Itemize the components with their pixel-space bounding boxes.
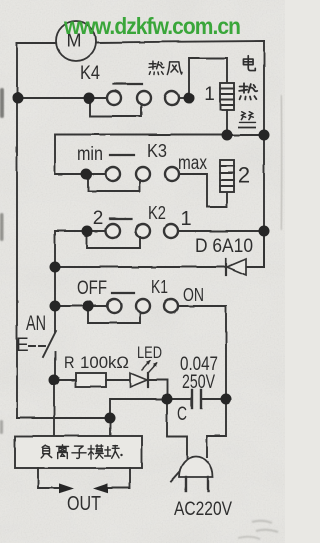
wire: diode cathode to branch node bbox=[55, 266, 226, 268]
paper edge artifacts bbox=[0, 88, 4, 434]
switch K1 bridge bar bbox=[112, 292, 134, 294]
LED arrows bbox=[142, 361, 157, 372]
svg-text:min: min bbox=[77, 144, 103, 165]
switch K3 linking bracket bbox=[88, 177, 140, 191]
svg-text:OFF: OFF bbox=[77, 278, 107, 299]
svg-text:AN: AN bbox=[26, 312, 46, 335]
node: heater mid / right rail bbox=[259, 130, 270, 141]
svg-text:max: max bbox=[178, 153, 207, 174]
wire: capacitor to cap-right node bbox=[202, 398, 226, 400]
node: K2 / right rail bbox=[259, 226, 270, 237]
switch K3 contact circle 1 bbox=[106, 167, 120, 181]
wire: heater 1 to node bbox=[226, 110, 228, 135]
wire: cap node to ion feed node bbox=[110, 399, 167, 418]
wire: K1 row to first contact bbox=[88, 305, 108, 307]
switch K2 contact circle 3 bbox=[164, 224, 178, 238]
switch AN lower lead bbox=[54, 352, 56, 380]
node: heater mid bbox=[222, 130, 233, 141]
node: diode / branch bbox=[50, 262, 61, 273]
svg-text:LED: LED bbox=[137, 343, 162, 362]
switch K4 linking bracket bbox=[90, 101, 141, 116]
switch K4 bridge bar bbox=[114, 83, 142, 85]
wire: heater node to right rail bbox=[227, 134, 264, 136]
wire: LED to cap-left node bbox=[148, 380, 167, 399]
svg-text:OUT: OUT bbox=[67, 493, 101, 515]
node: cap left bbox=[162, 394, 173, 405]
svg-text:1: 1 bbox=[180, 208, 191, 230]
LED bbox=[130, 373, 148, 387]
wire: K1 ON contact down to cap node bbox=[178, 306, 226, 399]
switch K1 contact circle 3 bbox=[164, 299, 178, 313]
switch K2 contact circle 2 bbox=[136, 224, 150, 238]
wire: K4 contact 3 to heater branch bbox=[179, 97, 189, 99]
wire: ion module right feed bbox=[109, 418, 111, 436]
wire: left rail bbox=[16, 43, 18, 418]
wire: ion output left bbox=[38, 468, 62, 488]
svg-text:C: C bbox=[177, 404, 187, 425]
svg-text:www.dzkfw.com.cn: www.dzkfw.com.cn bbox=[63, 13, 241, 39]
wire: diode node down to K1 row bbox=[55, 267, 88, 306]
svg-text:K1: K1 bbox=[151, 277, 168, 297]
svg-text:2: 2 bbox=[238, 163, 250, 188]
switch K1 contact circle 2 bbox=[136, 299, 150, 313]
wire: plug right lead bbox=[207, 399, 226, 457]
switch K1 linking bracket bbox=[88, 309, 140, 323]
wire: K4 row from rail to first contact bbox=[17, 97, 107, 99]
wire: ion output right bbox=[106, 468, 130, 488]
scan streak right edge bbox=[281, 95, 282, 230]
diode D 6A10 bbox=[226, 259, 246, 275]
switch AN label dashes bbox=[29, 345, 48, 347]
heater element 1 bbox=[220, 83, 234, 110]
capacitor C plates bbox=[192, 390, 201, 408]
heater element 2 bbox=[220, 160, 234, 192]
svg-text:ON: ON bbox=[183, 285, 204, 305]
switch K4 contact circle 1 bbox=[107, 91, 121, 105]
svg-text:E: E bbox=[16, 335, 29, 356]
wire: right rail bbox=[263, 41, 265, 267]
motor M bbox=[56, 21, 96, 61]
ion output arrowheads bbox=[59, 483, 108, 493]
svg-text:K2: K2 bbox=[148, 203, 166, 223]
node: K1 common bbox=[83, 301, 94, 312]
wire: resistor to LED bbox=[106, 379, 130, 381]
svg-text:AC220V: AC220V bbox=[174, 499, 232, 520]
switch K3 contact circle 2 bbox=[136, 167, 150, 181]
label 热风 bbox=[149, 61, 182, 74]
wire: top rail from left corner to motor bbox=[17, 42, 56, 44]
switch K3 bridge bar bbox=[110, 154, 134, 156]
switch K2 linking bracket bbox=[87, 234, 140, 248]
switch K2 contact circle 1 bbox=[106, 224, 120, 238]
switch K4 contact circle 2 bbox=[137, 91, 151, 105]
svg-text:100kΩ: 100kΩ bbox=[80, 353, 129, 372]
switch K2 bridge bar bbox=[110, 218, 132, 220]
node: cap right bbox=[221, 394, 232, 405]
node: K3 common bbox=[81, 169, 92, 180]
switch K1 contact circle 1 bbox=[107, 299, 121, 313]
svg-text:K3: K3 bbox=[147, 141, 167, 161]
resistor R 100k bbox=[76, 373, 106, 387]
node: K4 common bbox=[84, 93, 95, 104]
underline of 丝 bbox=[238, 127, 256, 129]
wire: motor to top-right corner bbox=[96, 41, 264, 43]
plug tick mark bbox=[171, 472, 179, 481]
watermark www.dzkfw.com.cn bbox=[63, 13, 241, 39]
ion module box bbox=[15, 436, 142, 468]
node: left rail / K4 bbox=[13, 93, 24, 104]
wire: ion module left feed bbox=[53, 380, 55, 436]
wire: R row node to resistor bbox=[55, 379, 76, 381]
label 电热丝 bbox=[239, 56, 257, 123]
plug prongs bbox=[186, 477, 208, 491]
switch K4 contact circle 3 bbox=[165, 91, 179, 105]
label 负离子模块 bbox=[41, 445, 123, 459]
wire: right rail lower segment to diode anode bbox=[246, 231, 264, 267]
wire: K3 row to first contact bbox=[86, 173, 106, 175]
node: K1 branch bbox=[50, 301, 61, 312]
wire: bottom-left horizontal to ion module feed node bbox=[17, 417, 110, 419]
wire: heater node to K3 feed bbox=[55, 135, 227, 175]
node: K4 to heater bbox=[184, 93, 195, 104]
svg-text:D 6A10: D 6A10 bbox=[195, 236, 253, 257]
node: ion feed bbox=[105, 413, 116, 424]
switch AN upper lead bbox=[54, 305, 56, 332]
plug dome AC220V bbox=[179, 456, 213, 477]
switch K3 contact circle 3 bbox=[165, 167, 179, 181]
svg-text:1: 1 bbox=[204, 84, 215, 105]
svg-text:K4: K4 bbox=[80, 63, 100, 84]
wire: K2 contact 1 to right rail bbox=[178, 230, 264, 232]
switch AN blade bbox=[43, 331, 56, 357]
wire: heater 1 loop bbox=[189, 58, 227, 98]
svg-text:250V: 250V bbox=[182, 372, 215, 393]
wire: K3 max contact to heater 2 bbox=[179, 174, 227, 207]
svg-text:R: R bbox=[64, 353, 75, 372]
svg-text:2: 2 bbox=[93, 208, 104, 229]
node: K2 common bbox=[82, 226, 93, 237]
node: R row bbox=[49, 375, 60, 386]
wire: diode node up to K2 row bbox=[55, 231, 87, 267]
wire: K2 row to first contact bbox=[87, 230, 106, 232]
scan smudges bottom right bbox=[238, 521, 278, 539]
wire: plug left lead bbox=[167, 399, 187, 458]
wire: cap-left node to capacitor bbox=[167, 398, 190, 400]
